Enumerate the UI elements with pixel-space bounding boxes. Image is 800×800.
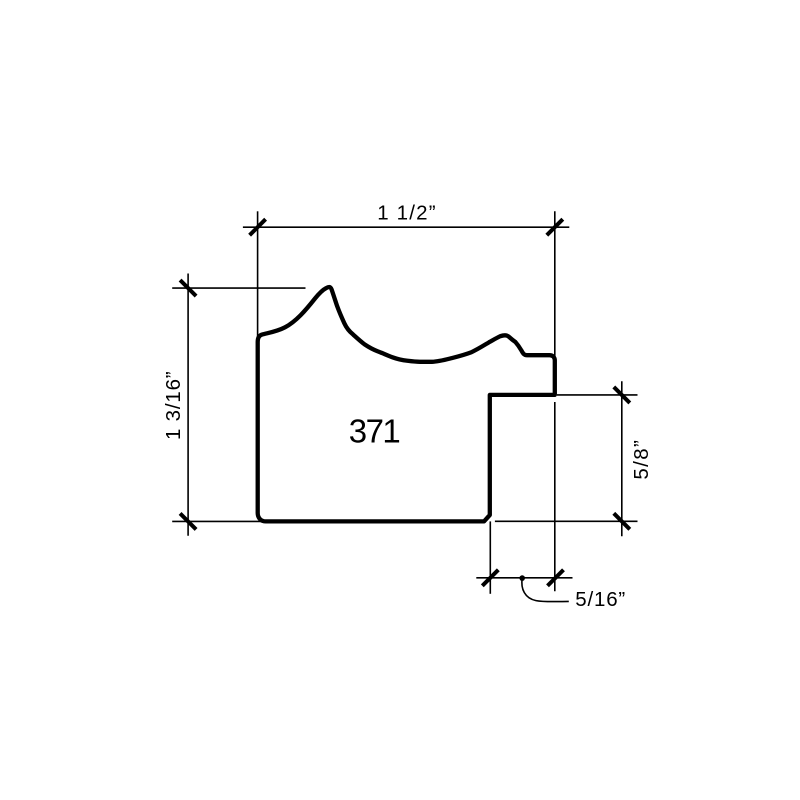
bottom dimension tick left (482, 570, 498, 586)
left dimension tick top (180, 280, 196, 296)
bottom dimension line (476, 577, 572, 579)
top dimension line (243, 226, 569, 228)
top dimension tick right (547, 219, 563, 235)
right dimension 5/8: extension line bottom (495, 520, 638, 522)
right dimension 5/8: extension line top (557, 394, 638, 396)
bottom dimension 5/16: extension line left (489, 521, 491, 593)
top dimension tick left (250, 219, 266, 235)
bottom dimension tick right (548, 570, 564, 586)
left dimension line (187, 274, 189, 536)
top dimension: extension line right (upper segment) (554, 211, 556, 395)
bottom dimension leader curve (522, 578, 569, 602)
right extension line (lower segment to 5/16 dim) (554, 402, 556, 591)
bottom dimension reference dot (519, 575, 525, 581)
svg-text:1 1/2”: 1 1/2” (377, 202, 437, 225)
right dimension tick bottom (614, 513, 630, 529)
svg-text:5/8”: 5/8” (630, 439, 653, 480)
left dimension: extension line top (172, 287, 305, 289)
left dimension: extension line bottom (172, 520, 266, 522)
svg-text:5/16”: 5/16” (575, 588, 626, 611)
svg-text:371: 371 (349, 412, 400, 449)
moulding profile 371 outline (258, 287, 555, 521)
svg-text:1 3/16”: 1 3/16” (162, 371, 185, 440)
left dimension tick bottom (180, 513, 196, 529)
right dimension tick top (614, 387, 630, 403)
top dimension: extension line left (257, 211, 259, 337)
right dimension line (621, 381, 623, 536)
